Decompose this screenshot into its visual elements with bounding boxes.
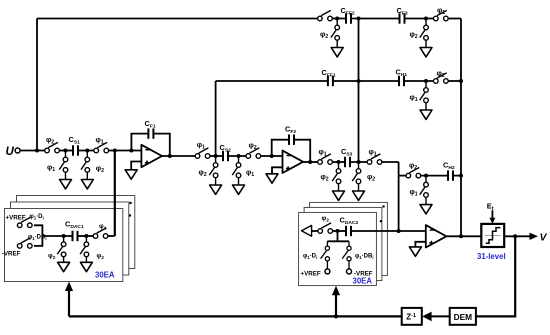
svg-text:φ1·Di: φ1·Di [303,254,317,260]
svg-text:-VREF: -VREF [2,251,21,258]
svg-text:+VREF: +VREF [6,215,26,222]
svg-text:V: V [540,232,548,244]
svg-text:φ1·Di: φ1·Di [30,214,44,220]
svg-text:DEM: DEM [454,312,473,322]
svg-text:φ1·DBi: φ1·DBi [355,254,374,260]
svg-text:+VREF: +VREF [301,270,321,277]
svg-text:31-level: 31-level [477,252,506,261]
svg-text:U: U [6,146,15,158]
svg-text:30EA: 30EA [95,271,115,280]
svg-text:φ1·DBi: φ1·DBi [28,235,47,241]
svg-text:30EA: 30EA [353,277,373,286]
